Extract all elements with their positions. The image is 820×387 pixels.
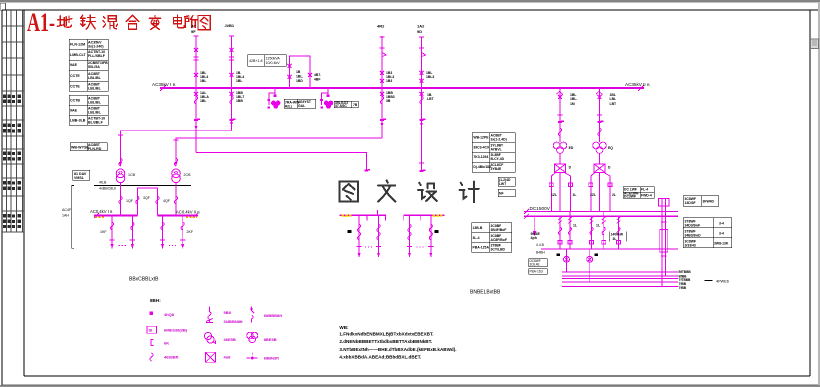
svg-text:LBL/BL: LBL/BL: [88, 87, 102, 91]
svg-text:1BL: 1BL: [200, 79, 206, 83]
svg-text:3B: 3B: [386, 99, 391, 103]
svg-text:3FW4D: 3FW4D: [703, 199, 715, 203]
svg-text:EQ: EQ: [608, 146, 613, 150]
svg-text:1L: 1L: [573, 224, 577, 228]
svg-text:PBA-125A: PBA-125A: [473, 246, 490, 250]
svg-text:FLN-RD: FLN-RD: [88, 147, 102, 151]
svg-text:1BL: 1BL: [236, 79, 242, 83]
svg-text:Dj-4Bb/188: Dj-4Bb/188: [473, 165, 491, 169]
svg-text:10/0.4kV: 10/0.4kV: [266, 61, 281, 65]
svg-text:WB-WYSE: WB-WYSE: [71, 146, 89, 150]
svg-text:3/3L4E: 3/3L4E: [530, 263, 540, 267]
svg-text:BNBELBxtBB: BNBELBxtBB: [470, 290, 501, 296]
svg-text:7K3-1294: 7K3-1294: [473, 155, 488, 159]
svg-text:FLL/XBLF: FLL/XBLF: [88, 54, 106, 58]
svg-text:34D3/3wF: 34D3/3wF: [685, 224, 701, 228]
svg-text:3B4F/BoF: 3B4F/BoF: [491, 228, 507, 232]
svg-text:1AH: 1AH: [62, 214, 69, 218]
svg-text:50L/5A: 50L/5A: [88, 65, 100, 69]
svg-text:1L: 1L: [573, 193, 577, 197]
svg-text:2L: 2L: [612, 193, 616, 197]
svg-text:LMB-CLT: LMB-CLT: [70, 53, 87, 57]
svg-text:1250kVA: 1250kVA: [266, 57, 281, 61]
svg-text:4R2: 4R2: [377, 24, 385, 29]
svg-text:13B-B: 13B-B: [473, 226, 483, 230]
svg-text:3/33/43: 3/33/43: [685, 244, 696, 248]
svg-text:VMSL: VMSL: [74, 176, 85, 180]
svg-text:B-CY-4D: B-CY-4D: [491, 157, 505, 161]
svg-text:4xBBC8Lb: 4xBBC8Lb: [99, 187, 116, 191]
svg-text:SI: SI: [149, 328, 153, 333]
svg-text:DC1500V: DC1500V: [530, 206, 551, 211]
svg-text:1ZL: 1ZL: [551, 193, 557, 197]
svg-text:1QF: 1QF: [126, 199, 134, 203]
svg-text:I3tBBB8ft: I3tBBB8ft: [264, 313, 283, 318]
svg-text:A1-: A1-: [27, 8, 55, 37]
svg-text:4u8: 4u8: [224, 355, 232, 360]
svg-text:CCTE: CCTE: [70, 74, 80, 78]
svg-text:LBL: LBL: [610, 97, 617, 101]
svg-text:AC0.4kV II B: AC0.4kV II B: [176, 210, 200, 215]
svg-text:42B+1.8: 42B+1.8: [249, 59, 263, 63]
svg-text:AYBVL: AYBVL: [491, 147, 502, 151]
svg-text:AC4F: AC4F: [62, 208, 72, 212]
svg-text:GAL: GAL: [298, 104, 305, 108]
svg-text:37.5/3C: 37.5/3C: [335, 104, 347, 108]
svg-text:FWD-4: FWD-4: [641, 194, 652, 198]
svg-text:CCTE: CCTE: [70, 85, 80, 89]
svg-text:ED: ED: [569, 146, 574, 150]
svg-text:9AE: 9AE: [70, 109, 78, 113]
svg-text:BBxCBBLxtB: BBxCBBLxtB: [129, 277, 159, 283]
svg-text:1A2: 1A2: [417, 24, 425, 29]
svg-text:NF: NF: [499, 192, 504, 196]
svg-text:46E5B: 46E5B: [224, 337, 236, 342]
svg-text:1BL.: 1BL.: [570, 97, 577, 101]
svg-text:1BB: 1BB: [236, 99, 243, 103]
svg-text:6MES38(3B): 6MES38(3B): [164, 328, 188, 333]
svg-text:1KF: 1KF: [100, 230, 107, 234]
svg-text:PBA-1D3: PBA-1D3: [530, 270, 544, 274]
svg-text:68BN3ft: 68BN3ft: [264, 356, 280, 361]
svg-text:B4BH: B4BH: [536, 251, 545, 255]
svg-text:LBT: LBT: [427, 97, 435, 101]
svg-text:J#: J#: [191, 24, 196, 29]
svg-text:8BH:: 8BH:: [150, 298, 161, 303]
svg-text:1BL.: 1BL.: [296, 75, 303, 79]
svg-text:1CB: 1CB: [128, 173, 136, 177]
svg-text:1BL3: 1BL3: [426, 75, 434, 79]
svg-text:4hQ8: 4hQ8: [164, 312, 175, 317]
svg-text:4683Bft: 4683Bft: [164, 355, 179, 360]
svg-text:FLN-12M: FLN-12M: [70, 43, 85, 47]
svg-text:8BE5B: 8BE5B: [264, 337, 277, 342]
svg-text:3-4: 3-4: [719, 222, 724, 226]
svg-text:2.dNENbBBBETTxtbdbxBBTTAxbBBNk: 2.dNENbBBBETTxtbdbxBBTTAxbBBNkBT.: [339, 339, 432, 344]
svg-text:3L: 3L: [613, 237, 617, 241]
svg-text:AC35kV II B: AC35kV II B: [625, 82, 650, 87]
svg-text:LBL/BL: LBL/BL: [88, 111, 102, 115]
svg-text:4PWE6: 4PWE6: [716, 280, 729, 284]
svg-text:WB-12PE: WB-12PE: [473, 136, 489, 140]
svg-text:R(L): R(L): [285, 104, 292, 108]
svg-text:3x(1-2.4D): 3x(1-2.4D): [491, 138, 507, 142]
svg-text:3L-4: 3L-4: [473, 236, 480, 240]
svg-text:LBL/BL: LBL/BL: [88, 101, 102, 105]
svg-text:3YB4E: 3YB4E: [491, 167, 502, 171]
svg-text:4QF: 4QF: [163, 199, 171, 203]
svg-text:4tLB: 4tLB: [99, 181, 107, 185]
svg-text:9F: 9F: [191, 29, 196, 34]
svg-text:4BF: 4BF: [314, 78, 320, 82]
svg-text:3QF: 3QF: [143, 196, 151, 200]
svg-text:39C3-4C9: 39C3-4C9: [473, 145, 489, 149]
svg-text:AC0.4kV I B: AC0.4kV I B: [90, 209, 113, 214]
svg-text:9D: 9D: [417, 29, 422, 34]
svg-text:FL-4: FL-4: [641, 188, 648, 192]
svg-text:34B3/3wD: 34B3/3wD: [685, 234, 702, 238]
svg-text:1BL: 1BL: [200, 99, 206, 103]
svg-text:LBL/BL: LBL/BL: [88, 76, 102, 80]
svg-text:TfBB: TfBB: [679, 286, 687, 290]
svg-text:J#B1: J#B1: [225, 23, 235, 28]
svg-text:13D/3F: 13D/3F: [685, 201, 696, 205]
svg-text:LWT: LWT: [499, 182, 507, 186]
svg-text:3I4BBN8ft: 3I4BBN8ft: [224, 319, 244, 324]
svg-text:1.FNdkxNdbENBMXLBjBTxbXdxtxEBE: 1.FNdkxNdbENBMXLBjBTxbXdxtxEBEXBT.: [339, 332, 433, 337]
svg-text:1B: 1B: [296, 70, 301, 74]
svg-text:1L: 1L: [596, 224, 600, 228]
svg-text:4ph: 4ph: [531, 236, 537, 240]
svg-text:4.4.B: 4.4.B: [536, 243, 545, 247]
svg-text:LBB-3LB: LBB-3LB: [70, 119, 86, 123]
svg-text:DC3WF: DC3WF: [624, 194, 636, 198]
svg-text:3-4: 3-4: [719, 232, 724, 236]
svg-text:2KF: 2KF: [187, 230, 194, 234]
svg-text:LBT: LBT: [610, 102, 618, 106]
svg-text:9AE: 9AE: [70, 63, 78, 67]
svg-text:2CB: 2CB: [184, 173, 192, 177]
svg-text:CCTB: CCTB: [70, 99, 80, 103]
svg-text:1400kW: 1400kW: [611, 233, 624, 237]
svg-text:1M: 1M: [570, 102, 575, 106]
svg-text:2ZL: 2ZL: [590, 193, 596, 197]
svg-text:1B3: 1B3: [386, 79, 392, 83]
svg-text:WB:: WB:: [339, 325, 349, 330]
svg-text:4B7.: 4B7.: [314, 73, 321, 77]
svg-text:7B: 7B: [353, 103, 358, 107]
svg-text:AC8F/BoF: AC8F/BoF: [491, 238, 507, 242]
svg-text:AC35kV I B: AC35kV I B: [152, 82, 176, 87]
svg-text:4.xbbXBBdA.ABEAd;BBbdBXL.dBET.: 4.xbbXBBdA.ABEAd;BBbdBXL.dBET.: [339, 355, 421, 360]
svg-text:3x(1-240): 3x(1-240): [88, 45, 104, 49]
svg-text:3W8-13K: 3W8-13K: [714, 242, 729, 246]
svg-text:1BD: 1BD: [296, 79, 303, 83]
svg-text:3CY/LBD: 3CY/LBD: [491, 248, 506, 252]
svg-text:5B8: 5B8: [224, 310, 232, 315]
svg-text:BL/3BLF: BL/3BLF: [88, 121, 104, 125]
svg-text:6K: 6K: [164, 341, 169, 346]
svg-text:3.NTbBExtNh——BHE.dTbBXAdbE.(kE: 3.NTbBExtNh——BHE.dTbBXAdbE.(kEFBxB.kABWd…: [339, 347, 456, 352]
